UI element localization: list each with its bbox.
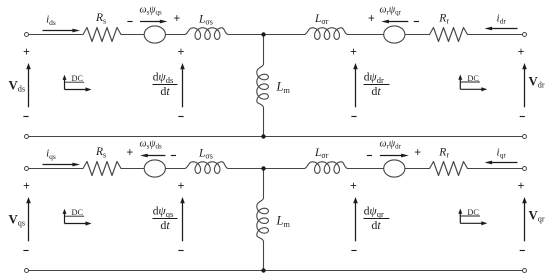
svg-text:+: + [350, 181, 357, 193]
svg-text:+: + [414, 147, 421, 159]
svg-text:+: + [126, 147, 133, 159]
svg-text:+: + [173, 13, 180, 25]
svg-text:+: + [178, 181, 185, 193]
svg-text:dt: dt [371, 84, 381, 98]
svg-text:+: + [23, 181, 30, 193]
svg-text:DC: DC [72, 208, 84, 217]
svg-text:+: + [350, 47, 357, 59]
svg-text:DC: DC [467, 74, 479, 83]
svg-text:DC: DC [467, 208, 479, 217]
svg-text:+: + [23, 47, 30, 59]
svg-text:dt: dt [160, 218, 170, 232]
svg-text:dt: dt [160, 84, 170, 98]
svg-text:+: + [518, 181, 525, 193]
svg-text:+: + [368, 13, 375, 25]
svg-text:DC: DC [72, 74, 84, 83]
svg-text:+: + [178, 47, 185, 59]
svg-text:dt: dt [371, 218, 381, 232]
svg-text:+: + [518, 47, 525, 59]
